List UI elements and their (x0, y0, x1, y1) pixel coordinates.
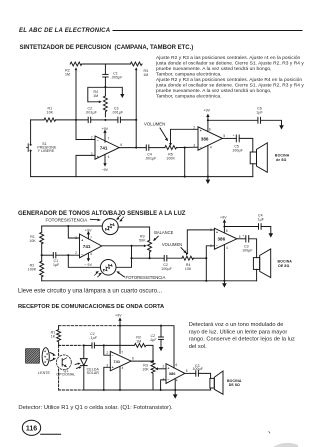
svg-text:EL ABC DE LA ELECTRONICA: EL ABC DE LA ELECTRONICA (19, 28, 110, 34)
svg-text:VOLUMEN: VOLUMEN (162, 242, 182, 247)
wire R5 right to 386 pin3, node down to ground (177, 146, 199, 148)
svg-text:100µF: 100µF (161, 267, 172, 271)
svg-text:3: 3 (163, 377, 165, 381)
svg-text:4: 4 (108, 155, 110, 159)
svg-text:4: 4 (122, 366, 124, 370)
386 pin4 to ground rail with ground arrow (207, 146, 209, 177)
+9V arrow 741 c2 (87, 233, 89, 239)
svg-text:.005µF: .005µF (111, 76, 123, 80)
svg-text:116: 116 (26, 426, 37, 433)
-9V arrow (pin 4) (104, 154, 106, 164)
wiper of R2 (arrow up) with wire down to input node (76, 70, 95, 140)
stray mark (269, 432, 270, 434)
svg-text:Tambor, campana electrónica.: Tambor, campana electrónica. (156, 94, 222, 100)
svg-text:2: 2 (106, 351, 108, 355)
svg-text:−: − (112, 354, 114, 358)
svg-text:+: + (167, 366, 169, 370)
resistor R1 10K (31, 119, 44, 121)
svg-text:3: 3 (106, 363, 108, 367)
speaker (BOCINA DE 8 ohms) c2 (253, 258, 259, 270)
capacitor C5 100uF (235, 135, 237, 142)
ground arrow right of C1 node (105, 87, 122, 94)
ground rail circuit 3 (dashed left part) (59, 389, 82, 391)
op-amp U1 741 (95, 136, 119, 159)
svg-text:4: 4 (90, 252, 92, 256)
svg-text:LENTE: LENTE (38, 371, 50, 375)
resistor R1 1K (detector) (58, 326, 60, 330)
resistor R3 1M (top-right pot) (130, 62, 142, 66)
386 pin6 to +9V (207, 116, 209, 132)
svg-text:100K: 100K (28, 268, 37, 272)
svg-text:rango. Conserve el detector le: rango. Conserve el detector lejos de la … (189, 337, 295, 343)
pin4 386 c3 down to rail + ground arrow (174, 378, 176, 394)
light arrows on solar cell (75, 364, 79, 369)
amplifier U2 386 (198, 127, 222, 150)
amplifier U6 386 c3 (166, 364, 185, 384)
speaker (BOCINA de 8 ohms) (250, 152, 256, 164)
wire C2 to R4 (167, 257, 182, 259)
ground rail circuit 1 (31, 176, 253, 178)
svg-text:BOCINA: BOCINA (275, 153, 290, 157)
svg-text:−: − (81, 253, 83, 257)
wire C5 to speaker (239, 138, 253, 152)
pin3 386 c3 to ground (161, 380, 166, 390)
capacitor C3 .001uF (105, 119, 118, 121)
svg-text:Detector: Utilice R1 y Q1 o ce: Detector: Utilice R1 y Q1 o celda solar.… (18, 405, 173, 411)
wire C4 to R5 (149, 147, 165, 149)
capacitor C3 100uF c3 (195, 371, 197, 377)
page curl artifact (273, 443, 298, 447)
wire C6 to ground arrow (261, 120, 282, 126)
switch S1 (push button) (30, 120, 32, 144)
wire R4 right to pin3 node (193, 257, 206, 259)
svg-text:+: + (81, 239, 83, 243)
capacitor C2 .001uF (87, 117, 89, 122)
wire C3 to speaker c3 (198, 373, 210, 378)
svg-text:10K: 10K (29, 239, 36, 243)
svg-text:10K: 10K (142, 368, 149, 372)
svg-text:1µF: 1µF (53, 263, 59, 267)
capacitor C1 1uF (42, 254, 54, 256)
svg-text:2: 2 (91, 135, 93, 139)
svg-text:6: 6 (132, 357, 134, 361)
svg-text:741: 741 (83, 244, 91, 249)
svg-text:RECEPTOR DE COMUNICACIONES DE: RECEPTOR DE COMUNICACIONES DE ONDA CORTA (18, 304, 164, 310)
focus arrows lens to Q1 (50, 353, 54, 361)
capacitor C1 .1uF c3 (84, 344, 92, 346)
wire C4 to ground arrow (261, 227, 271, 234)
wire +9V node to C4 (224, 226, 258, 228)
svg-text:4: 4 (210, 146, 212, 150)
note circuit 3 (189, 322, 295, 350)
capacitor C2 .1uF c3 (bypass) (160, 326, 162, 337)
top rail solid to 386 pin6 (120, 326, 174, 368)
wire top rail between R2 and R3 (82, 63, 130, 65)
svg-text:1µF: 1µF (256, 111, 262, 115)
svg-text:Lleve este circuito y una lámp: Lleve este circuito y una lámpara a un c… (18, 288, 162, 294)
capacitor C1 .005uF (104, 64, 106, 74)
svg-text:741: 741 (100, 146, 108, 151)
svg-text:1K: 1K (51, 335, 56, 339)
svg-text:2: 2 (75, 251, 77, 255)
wire +9V node to C6 (208, 119, 258, 121)
wire C3 to speaker c2 (249, 239, 257, 258)
svg-text:justa donde el oscilador se de: justa donde el oscilador se detiene. Cie… (155, 61, 304, 67)
svg-text:.1µF: .1µF (149, 338, 157, 342)
capacitor C3 100uF (245, 236, 247, 242)
wire to capacitor C2 100uF (132, 257, 165, 259)
svg-text:rayo de luz. Utilice un lente: rayo de luz. Utilice un lente para mayor (189, 329, 288, 335)
svg-text:.001µF: .001µF (112, 111, 124, 115)
svg-text:7: 7 (108, 136, 110, 140)
svg-text:1M: 1M (136, 339, 141, 343)
node R2-wiper crossing (75, 119, 77, 121)
svg-text:justa donde el oscilador se de: justa donde el oscilador se detiene. Cie… (155, 83, 304, 89)
svg-text:50K: 50K (139, 239, 146, 243)
-9V arrow 741 c2 (87, 253, 89, 260)
wire pin3 to ground rail (76, 155, 95, 176)
svg-text:SINTETIZADOR DE PERCUSION (CA: SINTETIZADOR DE PERCUSION (CAMPANA, TAMB… (20, 45, 194, 51)
node C2/C3 junction (104, 119, 106, 121)
svg-text:Ajuste R2 y R3 a las posicione: Ajuste R2 y R3 a las posiciones centrale… (156, 55, 301, 61)
svg-text:2: 2 (210, 228, 212, 232)
svg-text:Tambor, campana electrónica.: Tambor, campana electrónica. (156, 72, 222, 78)
svg-text:pruebe nuevamente. A la vez us: pruebe nuevamente. A la vez usted tendrá… (156, 88, 272, 94)
ground rail circuit 2 (42, 280, 257, 282)
svg-text:.001µF: .001µF (85, 111, 97, 115)
svg-text:del sol.: del sol. (189, 344, 207, 350)
wire pin3 node up to 386 pin3 and down to ground rail (206, 246, 214, 281)
wiper of R3 (arrow up) with wire down to output node (135, 70, 137, 148)
page number 116 (22, 420, 40, 435)
svg-text:4: 4 (226, 246, 228, 250)
svg-text:+: + (200, 129, 202, 133)
386 c2 pin6 to +9V (223, 221, 225, 233)
svg-text:1µF: 1µF (258, 217, 264, 221)
wire PR2 left lead (68, 255, 100, 267)
svg-text:+9V: +9V (115, 313, 122, 317)
svg-text:1M: 1M (93, 94, 98, 98)
svg-text:Ajuste R2 y R3 a las posicione: Ajuste R2 y R3 a las posiciones centrale… (156, 77, 302, 83)
svg-text:10K: 10K (185, 267, 192, 271)
svg-text:7: 7 (90, 236, 92, 240)
resistor R2 1M (top-left pot) (70, 62, 82, 66)
svg-text:10K: 10K (47, 110, 54, 114)
svg-text:5: 5 (223, 134, 225, 138)
svg-text:−: − (97, 138, 99, 142)
svg-text:VOLUMEN: VOLUMEN (144, 122, 165, 127)
wire 386 c2 output to C3 (237, 238, 246, 240)
svg-text:386: 386 (169, 371, 176, 376)
amplifier U4 386 (214, 228, 237, 249)
svg-text:−: − (200, 145, 202, 149)
dashed lead down to Q1 (58, 345, 60, 355)
resistor R1 10K (left, vertical) (40, 232, 44, 244)
svg-text:.001µF: .001µF (145, 157, 157, 161)
header rule (113, 30, 302, 32)
svg-text:+: + (216, 230, 218, 234)
386 c2 pin4 to ground rail with arrow (223, 245, 225, 284)
R5 wiper to 386 pin2 (171, 129, 199, 144)
svg-text:−: − (216, 244, 218, 248)
wire R1 to R2 with mid node (41, 244, 43, 261)
node R3-wiper on bottom wire (135, 119, 137, 121)
potentiometer R3 10K c3 (151, 361, 155, 390)
R4 wiper up to 386 pin2 (187, 230, 214, 254)
op-amp U3 741 (80, 234, 102, 258)
svg-text:6: 6 (226, 229, 228, 233)
svg-text:−: − (167, 378, 169, 382)
svg-text:OPCIONAL: OPCIONAL (56, 373, 75, 377)
potentiometer R4 10K (VOLUMEN) (182, 256, 194, 260)
svg-text:386: 386 (218, 237, 226, 242)
capacitor C4 .001uF (145, 145, 147, 150)
instruction paragraph (155, 55, 304, 100)
wiper loop of R4 (left detour with arrow into pot) (88, 87, 106, 102)
svg-text:FOTORESISTENCIA: FOTORESISTENCIA (46, 217, 88, 222)
wire C1 node to pin2 741 c3 (104, 345, 111, 355)
dashed wire R1 to solar node (59, 344, 82, 346)
svg-text:BOCINA: BOCINA (278, 260, 293, 264)
potentiometer R4 1M (vertical) (103, 87, 107, 117)
svg-text:3: 3 (193, 144, 195, 148)
left rail bottom (41, 277, 43, 281)
svg-text:+9V: +9V (101, 127, 108, 131)
svg-text:6: 6 (120, 143, 122, 147)
svg-text:1M: 1M (143, 73, 148, 77)
svg-text:DE 8Ω: DE 8Ω (278, 264, 289, 268)
svg-text:2: 2 (163, 364, 165, 368)
node C1 bottom (104, 86, 106, 88)
svg-text:SOLAR: SOLAR (87, 371, 100, 375)
svg-text:741: 741 (113, 359, 120, 364)
pin3 741 c3 to ground (104, 367, 111, 390)
svg-text:+: + (242, 234, 244, 238)
svg-text:−9V: −9V (101, 168, 108, 172)
svg-text:386: 386 (201, 137, 209, 142)
photoresistor PR1 (top) (102, 219, 118, 235)
svg-text:3: 3 (75, 236, 77, 240)
svg-text:GENERADOR DE TONOS ALTO/BAJO S: GENERADOR DE TONOS ALTO/BAJO SENSIBLE A … (18, 211, 186, 217)
svg-text:5: 5 (186, 369, 188, 373)
svg-text:6: 6 (209, 128, 211, 132)
wire R1 to C2 (56, 119, 88, 121)
lens LENTE (42, 348, 49, 366)
svg-text:BALANCE: BALANCE (154, 230, 173, 235)
light arrows on PR1 (117, 215, 124, 220)
svg-text:+9V: +9V (85, 228, 92, 232)
wire 386 c3 output to C3 (185, 372, 196, 374)
light arrows on PR2 (95, 272, 101, 277)
R3 bottom to C2 wire (149, 253, 151, 259)
node output to C2 wire (130, 257, 132, 259)
svg-text:6: 6 (176, 363, 178, 367)
wire 741 output (119, 147, 146, 149)
speaker (BOCINA DE 8 ohms) c3 (210, 378, 214, 388)
op-amp U5 741 c3 (110, 351, 131, 370)
svg-text:2: 2 (193, 126, 195, 130)
light beam (hatched block) (26, 349, 40, 364)
transistor Q1 phototransistor (dashed circle, optional) (57, 355, 72, 370)
feedback resistor R2 1M c3 (104, 343, 153, 361)
solar cell diode (83, 345, 85, 358)
svg-text:+: + (112, 366, 114, 370)
svg-text:4: 4 (176, 379, 178, 383)
potentiometer R5 100K (VOLUMEN) (165, 146, 177, 150)
svg-text:+9V: +9V (203, 109, 210, 113)
top rail dashed (detector section) (59, 325, 120, 327)
svg-text:de 8Ω: de 8Ω (276, 158, 286, 162)
svg-text:100µF: 100µF (242, 248, 253, 252)
capacitor C4 1uF (258, 224, 260, 230)
svg-text:Y LIBERE: Y LIBERE (38, 149, 55, 153)
pin4 741 c3 down to rail (119, 367, 121, 390)
top rail left (to left rail) (42, 225, 102, 227)
+9V arrow (pin 7) (104, 132, 106, 143)
svg-text:.1µF: .1µF (89, 336, 97, 340)
potentiometer R3 50K (BALANCE) (148, 240, 152, 252)
svg-text:+9V: +9V (220, 215, 227, 219)
wire 386 output to C5 (222, 137, 236, 139)
svg-text:100K: 100K (166, 157, 175, 161)
svg-text:pruebe nuevamente. A la vez us: pruebe nuevamente. A la vez usted tendrá… (156, 66, 272, 72)
svg-text:3: 3 (210, 244, 212, 248)
svg-text:7: 7 (121, 350, 123, 354)
wire output node down to PR2 right lead (116, 246, 132, 267)
R3 wiper to 386 c3 pin2 (157, 368, 166, 370)
resistor R2 100K (left, vertical) (40, 261, 44, 277)
svg-text:− 9V: − 9V (84, 263, 92, 267)
node PR2-left branch on pin2 wire (67, 254, 69, 256)
svg-text:DE 8Ω: DE 8Ω (229, 383, 240, 387)
svg-text:+: + (97, 155, 99, 159)
svg-text:100µF: 100µF (232, 149, 243, 153)
left rail (41, 226, 43, 232)
photoresistor PR2 (bottom) (100, 260, 116, 276)
svg-text:Detectará voz o un tono modula: Detectará voz o un tono modulado de (189, 322, 284, 328)
wire PR1 right lead to R3 top (118, 227, 149, 240)
wire 741 output to R3 wiper (102, 245, 145, 247)
wire 741 c3 output (131, 360, 153, 362)
capacitor C6 1uF (257, 117, 259, 123)
svg-text:100µF: 100µF (192, 367, 203, 371)
svg-text:FOTORESISTENCIA: FOTORESISTENCIA (126, 275, 166, 280)
wire pin3 up to top rail (68, 226, 79, 238)
svg-text:1M: 1M (65, 73, 70, 77)
svg-text:+: + (233, 134, 235, 138)
